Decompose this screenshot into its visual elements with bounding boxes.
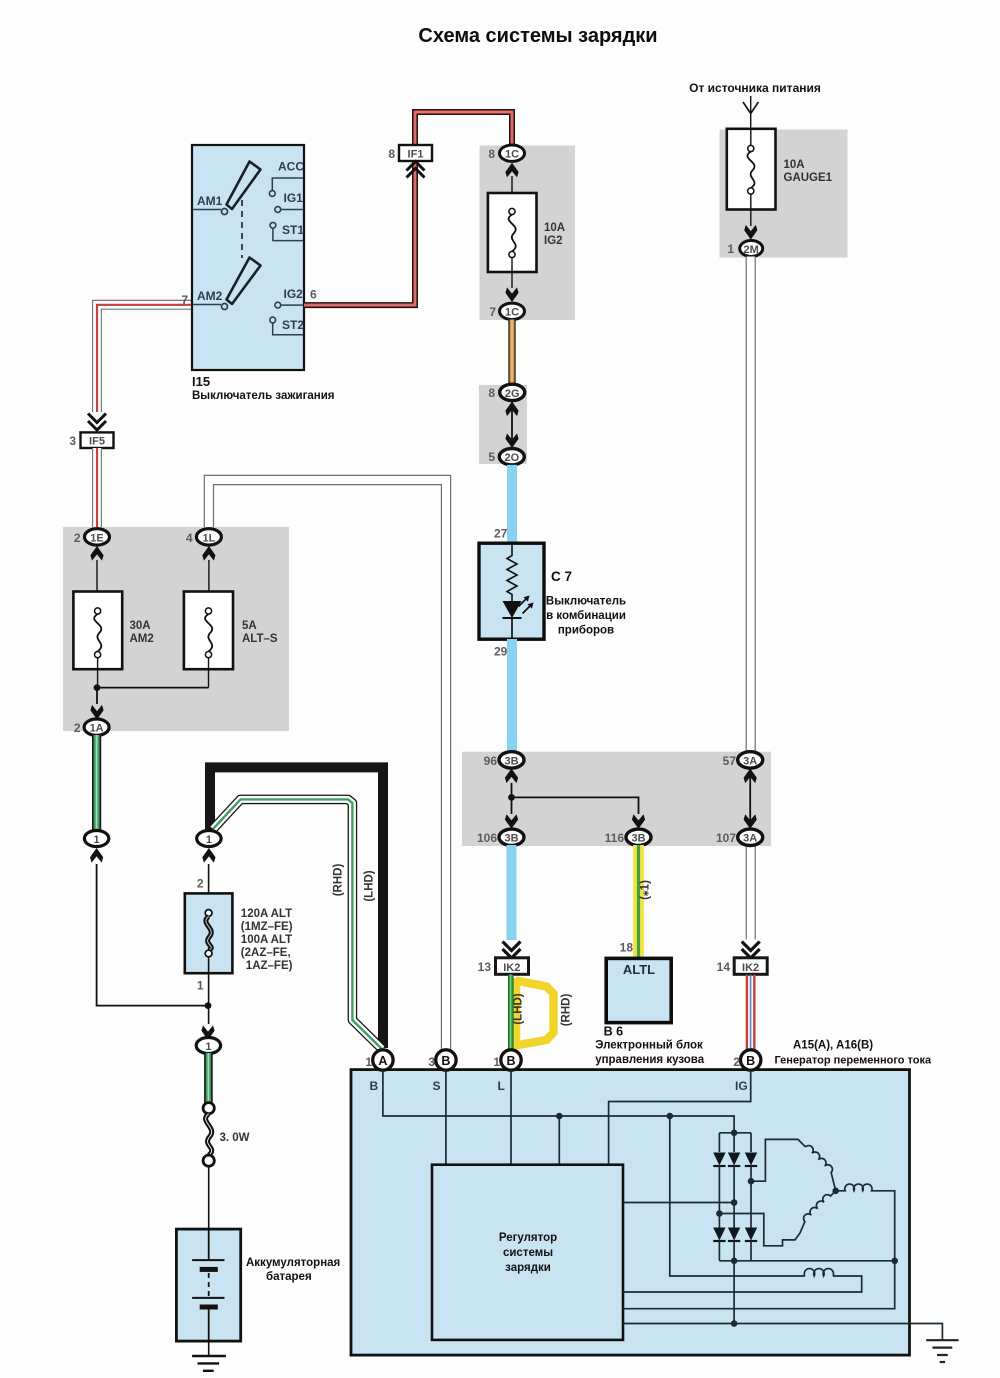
title bbox=[418, 25, 657, 47]
wire orange 1C to 2G bbox=[508, 320, 515, 386]
svg-text:IG2: IG2 bbox=[544, 235, 563, 247]
wire neutral to regulator bbox=[623, 1261, 895, 1309]
wire thick black LHD to A bbox=[210, 767, 383, 1048]
junction block (gray box 3B/3A) bbox=[462, 752, 771, 846]
svg-text:2: 2 bbox=[733, 1055, 740, 1069]
svg-text:ST2: ST2 bbox=[282, 318, 304, 332]
ground (battery) bbox=[192, 1341, 226, 1371]
connector 3A pin 107 bbox=[716, 829, 763, 845]
connector IK2 pin 14 (chevrons + box) bbox=[717, 942, 768, 975]
fuse GAUGE1 10A bbox=[727, 129, 833, 226]
svg-text:3. 0W: 3. 0W bbox=[220, 1132, 250, 1144]
svg-text:3B: 3B bbox=[631, 833, 645, 845]
svg-text:10A: 10A bbox=[544, 222, 565, 234]
diode D4 (lower left) bbox=[713, 1228, 725, 1261]
svg-text:B: B bbox=[506, 1054, 515, 1068]
svg-text:зарядки: зарядки bbox=[505, 1262, 551, 1274]
svg-text:3: 3 bbox=[69, 434, 76, 448]
I15 dashed link bbox=[241, 200, 243, 258]
regulator box bbox=[432, 1165, 623, 1340]
diode D6 (lower right) bbox=[745, 1181, 757, 1261]
svg-text:8: 8 bbox=[488, 147, 495, 161]
connector 2M pin 1 (arrow + oval) bbox=[727, 225, 762, 257]
svg-text:IG: IG bbox=[735, 1079, 748, 1093]
svg-text:13: 13 bbox=[478, 960, 492, 974]
svg-text:в комбинации: в комбинации bbox=[546, 610, 626, 622]
svg-text:управления кузова: управления кузова bbox=[595, 1054, 705, 1066]
wire white-red IF5 to 1E bbox=[92, 448, 102, 528]
terminal B pin 2 (IG) bbox=[733, 1050, 761, 1093]
wire mid column to ground rail bbox=[731, 1261, 738, 1327]
svg-text:Аккумуляторная: Аккумуляторная bbox=[246, 1257, 340, 1269]
connector 1A pin 2 bbox=[74, 719, 109, 735]
svg-text:4: 4 bbox=[186, 531, 193, 545]
svg-text:3: 3 bbox=[428, 1055, 435, 1069]
connector 2O pin 5 bbox=[488, 449, 524, 465]
svg-text:3B: 3B bbox=[504, 833, 518, 845]
wire black left battery branch bbox=[97, 864, 208, 1006]
svg-text:5A: 5A bbox=[242, 620, 257, 632]
svg-text:1: 1 bbox=[365, 1055, 372, 1069]
svg-text:2: 2 bbox=[74, 531, 81, 545]
svg-text:IG1: IG1 bbox=[284, 191, 304, 205]
svg-text:AM2: AM2 bbox=[197, 289, 223, 303]
svg-text:От источника питания: От источника питания bbox=[689, 81, 821, 95]
svg-text:(2AZ–FE,: (2AZ–FE, bbox=[241, 947, 291, 959]
battery bbox=[176, 1229, 340, 1341]
body ECU B6 (ALTL box) bbox=[595, 958, 705, 1066]
svg-text:107: 107 bbox=[716, 831, 736, 845]
svg-text:27: 27 bbox=[494, 527, 508, 541]
svg-text:IF1: IF1 bbox=[408, 149, 424, 161]
svg-text:ALTL: ALTL bbox=[623, 962, 655, 977]
wire B internal bbox=[383, 1071, 734, 1133]
svg-text:1A: 1A bbox=[90, 723, 104, 735]
svg-text:1: 1 bbox=[493, 1055, 500, 1069]
svg-text:120A ALT: 120A ALT bbox=[241, 908, 292, 920]
stator coil 3 (right) bbox=[836, 1184, 895, 1261]
wire L internal bbox=[510, 1071, 512, 1165]
fusible link 3.0W bbox=[203, 1103, 250, 1167]
svg-text:A: A bbox=[378, 1054, 387, 1068]
svg-text:1L: 1L bbox=[202, 532, 215, 544]
svg-text:L: L bbox=[498, 1079, 505, 1093]
connector 1L pin 4 bbox=[186, 529, 222, 561]
diode D5 (lower mid) bbox=[728, 1228, 740, 1261]
rotor field winding circuit bbox=[623, 1116, 862, 1292]
svg-text:2M: 2M bbox=[744, 244, 759, 256]
svg-text:5: 5 bbox=[488, 450, 495, 464]
svg-text:8: 8 bbox=[388, 147, 395, 161]
I15 terminal AM2 pin 7 bbox=[181, 289, 227, 310]
wire light blue 2O to C7 bbox=[507, 465, 517, 545]
ignition switch I15 bbox=[192, 145, 334, 402]
svg-text:2G: 2G bbox=[505, 388, 520, 400]
wire white-green RHD to A bbox=[213, 799, 382, 1049]
svg-text:(LHD): (LHD) bbox=[513, 993, 525, 1024]
diode D1 (upper left) bbox=[713, 1133, 725, 1228]
terminal B pin 3 (S) bbox=[428, 1050, 456, 1093]
svg-text:1: 1 bbox=[727, 242, 734, 256]
wire green 1A to connector 1 bbox=[92, 735, 101, 831]
wire white 1L to S terminal bbox=[209, 480, 446, 1051]
wire white 3A(107) to IK2(14) bbox=[746, 844, 756, 940]
svg-text:батарея: батарея bbox=[266, 1271, 312, 1283]
svg-text:1C: 1C bbox=[505, 307, 519, 319]
connector IK2 pin 13 (chevrons + box) bbox=[478, 942, 529, 975]
svg-text:7: 7 bbox=[489, 305, 496, 319]
svg-text:B: B bbox=[441, 1054, 450, 1068]
stator centre node bbox=[832, 1188, 839, 1195]
wire red-blue IK2(14) to IG bbox=[747, 975, 754, 1052]
connector 2G pin 8 bbox=[488, 384, 524, 400]
C7 resistor bbox=[507, 544, 517, 602]
wire red IG2 to IF1 to 1C bbox=[304, 112, 512, 305]
svg-text:AM1: AM1 bbox=[197, 194, 223, 208]
svg-text:S: S bbox=[433, 1079, 441, 1093]
connector 1 (battery) bbox=[196, 1038, 220, 1054]
wire regulator B input bbox=[558, 1116, 560, 1165]
svg-text:3A: 3A bbox=[743, 833, 757, 845]
C7 LED bbox=[503, 596, 534, 640]
wire green-yellow 3B(116) to ALTL bbox=[620, 845, 652, 958]
svg-text:Выключатель: Выключатель bbox=[546, 596, 626, 608]
svg-text:14: 14 bbox=[717, 960, 731, 974]
svg-text:8: 8 bbox=[488, 386, 495, 400]
svg-text:B 6: B 6 bbox=[604, 1025, 624, 1039]
svg-text:7: 7 bbox=[181, 293, 188, 307]
lamp unit C7 (charge indicator in combination meter) bbox=[479, 527, 626, 659]
wire 2G to 2O with arrows bbox=[505, 401, 518, 448]
I15 terminal AM1 bbox=[193, 194, 228, 215]
junction block (gray box AM2 / ALT-S fuses) bbox=[63, 527, 289, 731]
svg-text:IG2: IG2 bbox=[284, 287, 304, 301]
connector 3A pin 57 bbox=[723, 752, 763, 768]
svg-text:AM2: AM2 bbox=[130, 633, 154, 645]
svg-text:2: 2 bbox=[74, 721, 81, 735]
connector 3B pin 106 bbox=[477, 829, 524, 845]
I15 terminal IG2 pin 6 bbox=[275, 287, 317, 308]
node: power source label bbox=[689, 81, 821, 95]
svg-text:приборов: приборов bbox=[558, 625, 614, 637]
wire 57 to 107 with arrows bbox=[744, 769, 757, 829]
wire red 1C(8) top stub bbox=[510, 146, 513, 152]
fuse 120A ALT bbox=[185, 864, 293, 1024]
svg-text:29: 29 bbox=[494, 645, 508, 659]
svg-text:ACC: ACC bbox=[278, 160, 304, 174]
fuse 5A ALT-S bbox=[184, 560, 278, 688]
junction block (gray box 2G/2O) bbox=[479, 385, 527, 464]
I15 terminal IG1 bbox=[275, 191, 303, 212]
stator coil 1 bbox=[806, 1146, 836, 1191]
svg-text:10A: 10A bbox=[784, 159, 805, 171]
svg-text:1: 1 bbox=[94, 834, 100, 846]
svg-text:GAUGE1: GAUGE1 bbox=[784, 172, 833, 184]
ground (alternator) bbox=[926, 1340, 958, 1362]
I15 terminal ST2 bbox=[270, 317, 305, 335]
wire white 2M to 3A(57) bbox=[746, 257, 756, 754]
svg-text:2O: 2O bbox=[504, 452, 519, 464]
svg-text:C 7: C 7 bbox=[551, 569, 572, 584]
connector 1 (right) bbox=[197, 831, 221, 863]
wire 96 junction to 106 and 116 bbox=[505, 783, 645, 829]
svg-text:6: 6 bbox=[310, 288, 317, 302]
svg-text:1: 1 bbox=[206, 834, 212, 846]
svg-text:Генератор переменного тока: Генератор переменного тока bbox=[775, 1055, 933, 1067]
connector 3B pin 96 bbox=[484, 752, 524, 783]
svg-text:ST1: ST1 bbox=[282, 223, 304, 237]
svg-text:3B: 3B bbox=[504, 755, 518, 767]
svg-text:(1MZ–FE): (1MZ–FE) bbox=[241, 921, 293, 933]
connector IF1 pin 8 bbox=[388, 145, 432, 178]
svg-text:1: 1 bbox=[205, 1041, 211, 1053]
svg-text:100A ALT: 100A ALT bbox=[241, 934, 292, 946]
svg-text:ALT–S: ALT–S bbox=[242, 633, 278, 645]
svg-text:IK2: IK2 bbox=[742, 962, 759, 974]
wire green connector to fusible link bbox=[204, 1053, 213, 1103]
wire light blue 3B(106) to IK2(13) bbox=[507, 845, 517, 940]
I15 contact lever 1 bbox=[227, 162, 261, 210]
svg-text:(⁎1): (⁎1) bbox=[640, 880, 652, 900]
diode D3 (upper right) bbox=[745, 1133, 757, 1181]
wire regulator P sense bbox=[623, 1199, 737, 1206]
svg-text:18: 18 bbox=[620, 941, 634, 955]
svg-text:(RHD): (RHD) bbox=[333, 864, 345, 897]
svg-text:106: 106 bbox=[477, 831, 497, 845]
wire light blue C7 to 3B(96) bbox=[507, 639, 517, 753]
connector 1C pin 7 bbox=[489, 287, 524, 319]
junction block (gray box IG2 fuse) bbox=[480, 146, 576, 321]
svg-text:Схема системы зарядки: Схема системы зарядки bbox=[418, 25, 657, 47]
terminal B pin 1 (L) bbox=[493, 1050, 521, 1093]
fuse 10A IG2 bbox=[488, 176, 565, 288]
I15 terminal ACC bbox=[269, 160, 304, 197]
connector IF5 pin 3 (chevrons + box) bbox=[69, 414, 113, 449]
svg-text:Выключатель зажигания: Выключатель зажигания bbox=[192, 390, 334, 402]
wire to battery bbox=[208, 1166, 210, 1230]
terminal A pin 1 (B) bbox=[365, 1050, 393, 1093]
svg-text:A15(A), A16(B): A15(A), A16(B) bbox=[793, 1040, 873, 1052]
wire green IK2(13) to L bbox=[508, 975, 514, 1052]
connector 1 (left) bbox=[84, 831, 108, 863]
stator coil 2 (lower) bbox=[716, 1191, 836, 1246]
svg-text:1E: 1E bbox=[90, 532, 103, 544]
svg-text:116: 116 bbox=[605, 831, 625, 845]
wire from power source (arrow down) bbox=[743, 96, 758, 130]
wire IG internal bbox=[609, 1071, 751, 1165]
junction + arrow to connector 1 (battery leg) bbox=[201, 1002, 214, 1040]
I15 terminal ST1 bbox=[270, 222, 304, 240]
svg-text:системы: системы bbox=[503, 1247, 553, 1259]
svg-text:1C: 1C bbox=[505, 149, 519, 161]
svg-text:IK2: IK2 bbox=[503, 962, 520, 974]
wire white-red AM2 to IF5 bbox=[97, 305, 192, 412]
wire phase 1 to stator bbox=[748, 1139, 806, 1184]
diode bridge rails bbox=[719, 1130, 898, 1265]
wire yellow RHD detour at L bbox=[513, 978, 573, 1049]
svg-text:57: 57 bbox=[723, 754, 737, 768]
wire S internal bbox=[445, 1071, 447, 1165]
svg-text:30A: 30A bbox=[130, 620, 151, 632]
svg-text:B: B bbox=[746, 1054, 755, 1068]
junction block J/B (gray box GAUGE1) bbox=[720, 130, 848, 258]
fuse 30A AM2 bbox=[73, 560, 153, 688]
svg-text:1: 1 bbox=[197, 979, 204, 993]
connector 1E pin 2 bbox=[74, 529, 110, 561]
svg-text:2: 2 bbox=[197, 877, 204, 891]
svg-text:Регулятор: Регулятор bbox=[499, 1232, 557, 1244]
svg-text:I15: I15 bbox=[192, 374, 210, 389]
I15 contact lever 2 bbox=[227, 258, 261, 305]
diode D2 (upper mid) bbox=[728, 1133, 740, 1228]
svg-text:B: B bbox=[370, 1079, 379, 1093]
svg-text:96: 96 bbox=[484, 754, 498, 768]
svg-text:(RHD): (RHD) bbox=[561, 994, 573, 1027]
wire fuse outputs junction to 1A bbox=[90, 684, 208, 719]
svg-text:Электронный блок: Электронный блок bbox=[595, 1040, 703, 1052]
svg-text:IF5: IF5 bbox=[89, 436, 105, 448]
alternator A15(A) A16(B) box bbox=[351, 1040, 932, 1356]
connector 1C pin 8 bbox=[488, 145, 524, 177]
svg-text:3A: 3A bbox=[743, 755, 757, 767]
connector 3B pin 116 bbox=[605, 829, 651, 845]
svg-text:1AZ–FE): 1AZ–FE) bbox=[246, 960, 293, 972]
svg-text:(LHD): (LHD) bbox=[364, 870, 376, 901]
wire ground line out of box bbox=[623, 1324, 942, 1341]
